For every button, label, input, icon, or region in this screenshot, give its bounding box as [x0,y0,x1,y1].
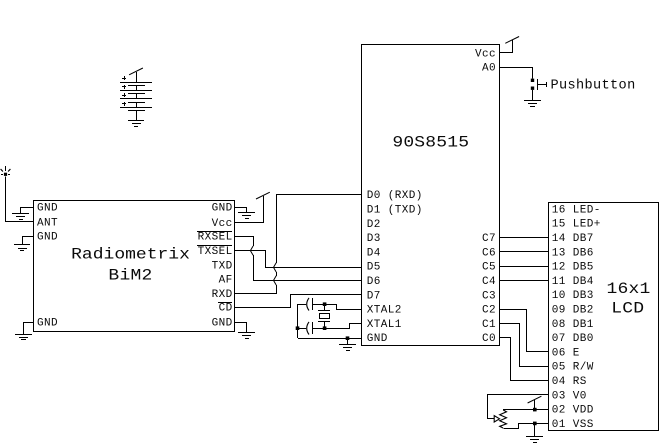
svg-text:04 RS: 04 RS [552,376,587,388]
svg-text:D4: D4 [367,247,381,259]
svg-text:Vcc: Vcc [212,218,233,230]
svg-text:C4: C4 [482,276,496,288]
svg-text:14 DB7: 14 DB7 [552,233,594,245]
svg-text:BiM2: BiM2 [108,267,152,285]
svg-text:AF: AF [219,275,233,287]
svg-text:D7: D7 [367,290,381,302]
svg-text:Vcc: Vcc [475,48,496,60]
svg-text:GND: GND [212,318,233,330]
svg-text:16x1: 16x1 [607,281,651,299]
svg-text:A0: A0 [482,63,496,75]
svg-text:02 VDD: 02 VDD [552,405,594,417]
svg-text:GND: GND [367,333,388,345]
svg-text:03 V0: 03 V0 [552,390,587,402]
svg-text:01 VSS: 01 VSS [552,419,594,431]
svg-text:GND: GND [212,203,233,215]
svg-text:GND: GND [37,203,58,215]
svg-text:ANT: ANT [37,217,58,229]
svg-text:16 LED-: 16 LED- [552,204,601,216]
svg-text:90S8515: 90S8515 [392,134,469,152]
svg-text:10 DB3: 10 DB3 [552,290,594,302]
svg-text:C1: C1 [482,319,496,331]
svg-text:Radiometrix: Radiometrix [71,247,190,265]
svg-text:13 DB6: 13 DB6 [552,247,594,259]
svg-text:06 E: 06 E [552,347,580,359]
svg-text:C7: C7 [482,233,496,245]
svg-text:RXD: RXD [212,289,233,301]
svg-text:C2: C2 [482,305,496,317]
svg-text:12 DB5: 12 DB5 [552,262,594,274]
svg-text:CD: CD [219,303,233,315]
svg-text:D6: D6 [367,276,381,288]
svg-text:D2: D2 [367,219,381,231]
svg-text:Pushbutton: Pushbutton [551,79,636,94]
svg-text:07 DB0: 07 DB0 [552,333,594,345]
svg-text:D1 (TXD): D1 (TXD) [367,205,423,217]
svg-text:TXD: TXD [212,261,233,273]
svg-text:15 LED+: 15 LED+ [552,219,601,231]
svg-text:GND: GND [37,318,58,330]
svg-text:D0 (RXD): D0 (RXD) [367,190,423,202]
svg-text:RXSEL: RXSEL [198,232,233,244]
svg-text:C3: C3 [482,290,496,302]
svg-text:LCD: LCD [611,300,644,318]
svg-text:XTAL2: XTAL2 [367,305,402,317]
svg-text:GND: GND [37,232,58,244]
svg-text:08 DB1: 08 DB1 [552,319,594,331]
svg-text:C6: C6 [482,247,496,259]
svg-text:11 DB4: 11 DB4 [552,276,594,288]
svg-text:C0: C0 [482,333,496,345]
svg-text:05 R/W: 05 R/W [552,362,594,374]
svg-text:D3: D3 [367,233,381,245]
svg-text:D5: D5 [367,262,381,274]
svg-text:XTAL1: XTAL1 [367,319,402,331]
svg-text:09 DB2: 09 DB2 [552,305,594,317]
svg-text:C5: C5 [482,262,496,274]
svg-text:TXSEL: TXSEL [198,246,233,258]
